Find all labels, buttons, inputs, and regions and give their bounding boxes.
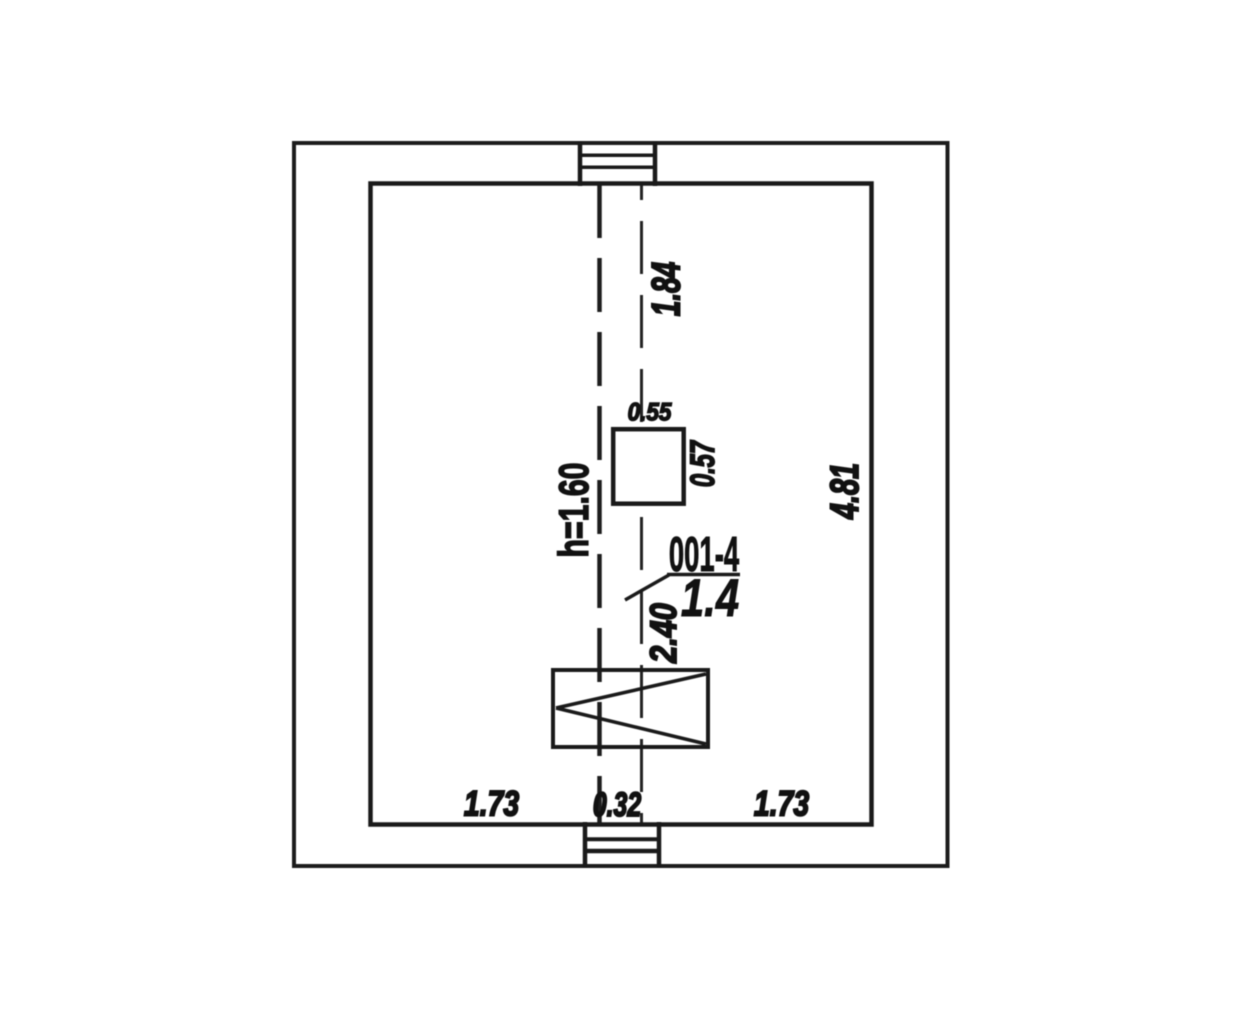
bottom window: glazing line 2 <box>585 849 659 854</box>
top window: right jamb <box>653 141 658 186</box>
svg-text:0.55: 0.55 <box>628 398 673 426</box>
axis line B (right dashed centerline) <box>640 184 643 824</box>
shaft square (white filled) <box>613 429 684 504</box>
niche rectangle <box>553 670 708 747</box>
svg-text:h=1.60: h=1.60 <box>550 463 597 558</box>
leader diagonal <box>625 575 669 600</box>
svg-text:1.73: 1.73 <box>754 784 809 824</box>
niche diagonal lower <box>556 708 706 744</box>
svg-text:0.32: 0.32 <box>593 786 642 824</box>
bottom window: left jamb <box>583 822 588 868</box>
top window: glazing line 1 <box>580 153 655 157</box>
bottom window: right jamb <box>657 822 662 868</box>
outer wall rectangle <box>294 143 948 866</box>
axis line A (left dashed centerline) <box>597 184 602 824</box>
svg-text:1.73: 1.73 <box>464 784 519 824</box>
svg-text:1.4: 1.4 <box>681 569 739 628</box>
svg-text:0.57: 0.57 <box>684 439 722 487</box>
leader underline for room label <box>667 573 740 577</box>
svg-text:4.81: 4.81 <box>823 463 868 520</box>
bottom window: glazing line 1 <box>585 837 659 841</box>
niche diagonal upper <box>556 674 706 708</box>
svg-text:1.84: 1.84 <box>645 262 689 316</box>
svg-text:2.40: 2.40 <box>643 603 684 664</box>
top window: glazing line 2 <box>580 166 655 170</box>
top window: left jamb <box>578 141 583 186</box>
inner wall rectangle <box>371 184 872 825</box>
